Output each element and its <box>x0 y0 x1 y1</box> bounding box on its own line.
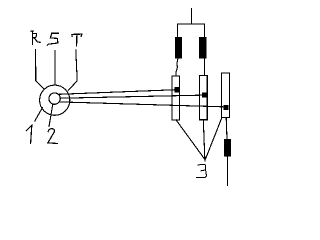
feeder bar wire <box>178 24 205 37</box>
junction dot C <box>224 105 229 110</box>
wire electrode 1 to star point <box>176 120 204 159</box>
wire A (top horizontal) <box>59 90 177 95</box>
feeder stem wire <box>191 8 193 24</box>
wire fuse F2 to electrode 2 <box>204 58 206 76</box>
fuse F3 (filled) <box>224 140 230 156</box>
wire phase R <box>36 50 45 89</box>
wire fuse F1 to electrode 1 <box>176 58 178 76</box>
wire phase S <box>54 51 56 85</box>
wire electrode 3 down <box>225 118 228 140</box>
junction dot A <box>174 87 180 92</box>
wire below fuse F3 <box>226 156 228 186</box>
fuse F1 (left filled) <box>175 37 181 57</box>
wire B (middle horizontal) <box>61 95 205 98</box>
junction dot B <box>202 93 207 98</box>
electrode 2 rectangle <box>200 76 208 120</box>
wire C (bottom horizontal) <box>60 102 226 107</box>
brush inner circle (part 2) <box>49 93 60 104</box>
wire phase T <box>68 50 77 90</box>
fuse F2 (right filled) <box>200 37 206 57</box>
electrode 1 rectangle <box>172 76 180 120</box>
label 2 <box>48 129 57 144</box>
wire electrode 3 to star point <box>206 118 222 159</box>
electrode 3 rectangle <box>222 73 230 118</box>
phase label T <box>72 34 82 46</box>
label 3 <box>197 164 207 177</box>
leader line to label 1 <box>35 108 43 122</box>
slip-ring outer circle (part 1) <box>40 85 70 115</box>
phase label R <box>31 31 40 45</box>
wire electrode 2 to star point <box>203 120 205 161</box>
leader line to label 2 <box>49 105 53 127</box>
label 1 <box>26 125 32 143</box>
phase label S <box>47 33 58 45</box>
